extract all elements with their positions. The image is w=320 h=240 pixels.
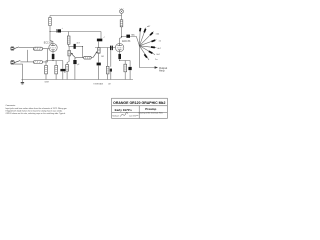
resistor R5 plate load: [67, 32, 70, 47]
ground symbol: [21, 80, 24, 85]
wire down to wiper tap: [82, 47, 84, 58]
capacitor CF5: [151, 46, 155, 49]
ground bus: [21, 79, 133, 81]
capacitor CF3: [150, 33, 153, 36]
wire node A rail: [50, 31, 101, 33]
svg-text:820R: 820R: [45, 81, 50, 83]
capacitor C5 coupling: [74, 44, 76, 49]
wire node B: [95, 47, 113, 49]
wire ray 7: [139, 46, 149, 60]
wire J2 to R3: [20, 61, 33, 63]
notes text: [6, 104, 68, 115]
svg-text:Input jacks and tone values ta: Input jacks and tone values taken from t…: [6, 107, 68, 110]
capacitor C4 electrolytic to bus: [60, 61, 65, 80]
svg-text:Jan 1972: Jan 1972: [129, 115, 136, 117]
triode V1: [49, 43, 57, 51]
wire R1 to node A: [49, 26, 51, 32]
wire ray 5: [139, 46, 156, 48]
wiper arrow VR2: [93, 51, 97, 57]
resistor R2 input 68k: [33, 47, 42, 50]
wire HT top rail: [50, 15, 122, 17]
wire grid leak drops: [108, 48, 111, 67]
capacitor C7 electrolytic to bus: [97, 63, 101, 80]
wire jack sleeve to ground bus: [14, 64, 22, 79]
capacitor C13 to bus: [73, 58, 80, 80]
wire ray 1: [138, 28, 141, 46]
svg-text:TONE/GAIN: TONE/GAIN: [93, 83, 104, 86]
svg-text:6AC: 6AC: [131, 33, 135, 36]
wire J1 to R2: [14, 48, 33, 49]
wire node A down to V1 plate: [50, 32, 53, 44]
capacitor CF6: [149, 51, 153, 53]
wire R2 to grid node: [43, 47, 51, 50]
capacitor C1 electrolytic on node A rail: [57, 28, 63, 33]
lamp DL1 top right: [120, 8, 124, 16]
capacitor CF2: [144, 29, 145, 33]
wire switch pole to output: [140, 46, 155, 68]
label signature left: [112, 112, 138, 117]
wire from node A rail down to C6: [100, 32, 102, 39]
wire ray 6: [139, 46, 155, 55]
capacitor C10 cathode V2: [118, 52, 121, 60]
wiper arrow VR1: [71, 53, 76, 59]
potentiometer VR1 volume: [67, 47, 70, 65]
capacitor C6 electrolytic: [97, 37, 105, 48]
svg-text:Comments:: Comments:: [6, 104, 17, 107]
resistor R6 mixer: [76, 56, 93, 59]
resistor R9 plate load V2: [120, 16, 123, 37]
potentiometer VR2: [98, 48, 101, 63]
arrow output: [155, 66, 158, 69]
input jack J1: [11, 47, 19, 50]
triode V2: [115, 43, 123, 51]
input jack J2: [11, 61, 20, 65]
title block: [112, 98, 168, 118]
wire cathode junction V2: [120, 59, 131, 60]
wire plate node to switch: [122, 37, 140, 46]
svg-text:1n: 1n: [155, 59, 157, 61]
svg-text:Courtesy of MX Schematic Herit: Courtesy of MX Schematic Herit.: [139, 112, 164, 115]
svg-text:Redrawn: Redrawn: [112, 114, 119, 117]
resistor R8 cathode V2: [124, 61, 127, 80]
resistor R3 input 68k: [33, 61, 42, 64]
resistor R10 tail: [66, 65, 69, 80]
resistor R1 dropper: [49, 18, 52, 26]
svg-text:Early 1970's: Early 1970's: [115, 108, 133, 112]
wire jack link vertical: [27, 50, 29, 62]
wire V2 plate up: [120, 37, 122, 44]
wire to V2 grid: [113, 47, 116, 49]
wire from rail down to R1: [49, 16, 51, 18]
svg-text:OR120 shown on this site, sele: OR120 shown on this site, selecting caps…: [6, 112, 67, 115]
capacitor C8 grid coupling: [111, 46, 113, 51]
capacitor C11 bypass electrolytic: [128, 61, 131, 80]
capacitor CF7: [144, 54, 147, 57]
capacitor C3 bypass: [55, 61, 58, 80]
svg-text:Preamp: Preamp: [145, 107, 156, 111]
resistor R4 cathode: [45, 61, 48, 80]
wire ray 4: [139, 40, 156, 46]
capacitor C9 small: [110, 69, 112, 80]
wire cathode junction: [46, 59, 63, 60]
resistor R7 grid leak: [106, 66, 109, 79]
capacitor CF4: [152, 40, 156, 41]
svg-text:1M: 1M: [101, 56, 104, 58]
capacitor CF1: [139, 28, 142, 31]
wire ray 2: [139, 28, 146, 46]
wire ray 3: [139, 32, 153, 46]
wire R3 to grid node link: [43, 49, 48, 62]
wire plate node: [69, 46, 83, 48]
capacitor C2 cathode V1: [52, 52, 55, 60]
svg-text:1k: 1k: [64, 72, 66, 74]
capacitor C12 coupling: [126, 35, 130, 38]
svg-text:ORANGE OR120 GRAPHIC Mk2: ORANGE OR120 GRAPHIC Mk2: [113, 101, 165, 105]
svg-text:ECC 83: ECC 83: [122, 41, 131, 43]
node dots: [49, 31, 140, 61]
rotary switch SW1 fan: [139, 26, 161, 61]
svg-text:I flipped both triode halves h: I flipped both triode halves here shown …: [6, 109, 63, 112]
svg-text:Amp: Amp: [159, 69, 165, 73]
